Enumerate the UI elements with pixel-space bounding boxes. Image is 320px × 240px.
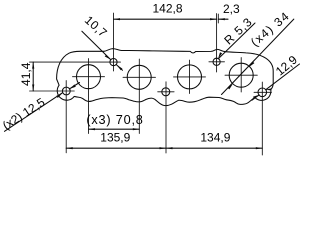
leader (x2) 12,5 tail	[69, 83, 79, 89]
arrow 134,9 right	[256, 147, 262, 149]
centerline port4 vertical	[240, 58, 242, 93]
dim line 142,8	[114, 18, 217, 20]
dim line (x3) 70,8	[89, 128, 140, 130]
arrow 10,7 upper	[105, 55, 111, 60]
arrow R 5,3	[218, 52, 222, 58]
arrow 70,8 right	[133, 128, 140, 130]
centerline hole middle horizontal	[158, 91, 174, 93]
svg-text:41,4: 41,4	[19, 62, 33, 86]
leader 12,9	[266, 64, 300, 90]
part outline (gasket flange)	[57, 49, 274, 106]
leader 10,7	[82, 31, 111, 60]
bolt hole bottom-right (d12.9)	[258, 88, 267, 97]
arrow 10,7 lower	[116, 65, 122, 71]
bolt hole left (d12.5)	[62, 87, 70, 95]
centerline hole bottom-right horizontal	[254, 91, 272, 93]
ext line 2,3 second	[217, 14, 219, 23]
svg-text:135,9: 135,9	[100, 130, 130, 144]
ext line hole-left vertical (135,9)	[65, 81, 67, 153]
dim tail 2,3	[218, 18, 228, 20]
svg-text:2,3: 2,3	[223, 2, 240, 16]
arrow 70,8 left	[89, 128, 96, 130]
dim line 134,9	[166, 147, 262, 149]
ext line hole top-left vertical (142,8)	[113, 13, 115, 71]
arrow 12,9 at hole	[266, 88, 272, 90]
svg-text:(x3) 70,8: (x3) 70,8	[86, 113, 143, 127]
ext line hole-middle vertical (135,9/134,9)	[165, 82, 167, 153]
dim line (x4) 34 diagonal	[222, 19, 294, 94]
dim line 41,4 vertical	[32, 62, 34, 91]
leader 10,7 tail	[116, 65, 122, 71]
centerline port1 horizontal	[73, 76, 105, 78]
bolt hole top-right (R5.3)	[213, 58, 220, 65]
bolt hole middle (d12.5)	[162, 88, 170, 96]
centerline port2 vertical / ext for 70,8	[138, 59, 140, 134]
leader R 5,3	[218, 23, 255, 59]
centerline port1 vertical / ext for 70,8	[88, 59, 90, 134]
dim line 135,9	[66, 147, 166, 149]
arrow (x2)12,5 at hole	[57, 93, 63, 98]
centerline port3 vertical	[189, 60, 191, 94]
centerline port3 horizontal	[174, 76, 206, 78]
leader (x2) 12,5	[5, 93, 63, 132]
arrow 142,8 right	[210, 18, 217, 20]
ext line hole bottom-right vertical (134,9)	[261, 82, 263, 155]
arrow 41,4 top	[32, 62, 34, 69]
arrow (x2)12,5 opposed	[70, 84, 76, 89]
centerline hole top-right horizontal	[209, 61, 225, 63]
centerline port4 horizontal	[225, 74, 257, 76]
arrow 12,9 opposed	[253, 95, 259, 99]
arrow (x4)34 lower-left	[228, 84, 233, 90]
port circle 3 (d34)	[178, 65, 202, 89]
arrow (x4)34 upper-right	[249, 62, 254, 68]
port circle 4 (d34)	[229, 63, 253, 87]
leader 12,9 tail	[252, 95, 259, 100]
svg-text:142,8: 142,8	[152, 2, 182, 16]
centerline port2 horizontal	[123, 76, 156, 78]
arrow 41,4 bottom	[32, 85, 34, 92]
arrow 135,9 left	[66, 147, 73, 149]
svg-text:134,9: 134,9	[200, 130, 230, 144]
arrow 135,9 right	[160, 147, 167, 149]
port circle 2 (d34)	[127, 65, 151, 89]
arrow 134,9 left	[166, 147, 173, 149]
arrow 142,8 left	[114, 18, 121, 20]
ext line 41,4 bottom / hole-left horizontal	[30, 90, 75, 92]
port circle 1 (d34)	[77, 65, 101, 89]
bolt hole top-left (d10.7)	[110, 59, 117, 66]
arrow 2,3 outside	[218, 18, 225, 20]
ext line 41,4 top horizontal through hole	[30, 61, 121, 63]
ext line hole top-right vertical (142,8 / 2,3)	[216, 14, 218, 73]
